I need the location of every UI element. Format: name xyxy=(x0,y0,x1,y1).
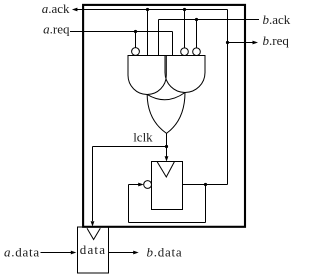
svg-text:a.req: a.req xyxy=(43,21,70,36)
svg-text:b.req: b.req xyxy=(263,33,290,48)
svg-text:b.data: b.data xyxy=(147,244,183,259)
svg-text:a.ack: a.ack xyxy=(42,1,70,16)
svg-text:b.ack: b.ack xyxy=(263,12,291,27)
svg-text:lclk: lclk xyxy=(133,130,153,145)
svg-text:data: data xyxy=(80,242,106,257)
svg-text:a.data: a.data xyxy=(4,244,40,259)
